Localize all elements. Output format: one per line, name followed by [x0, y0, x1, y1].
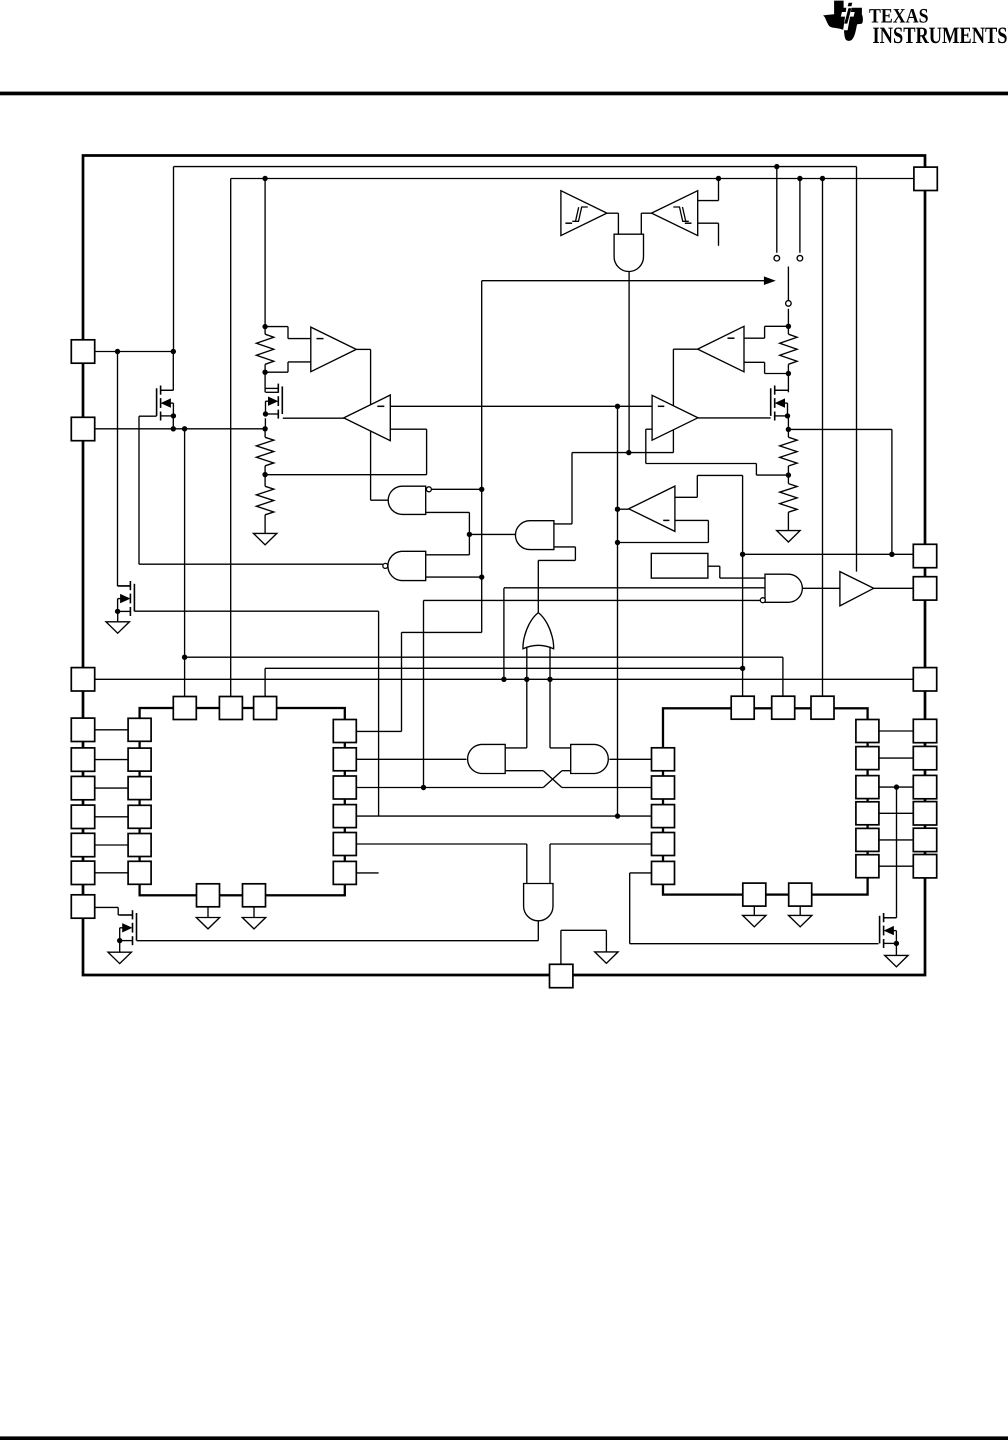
pin — [913, 802, 936, 825]
wire — [505, 770, 543, 772]
junction — [467, 532, 472, 537]
junction — [786, 472, 791, 477]
nmos Q3 drain lead — [775, 389, 788, 391]
pad right-block west — [652, 776, 675, 799]
OR gate — [523, 613, 554, 649]
pad left-block south — [197, 884, 220, 907]
junction — [615, 813, 620, 818]
nmos Q3 source lead — [775, 415, 788, 417]
nmos Q2 channel — [277, 384, 279, 393]
wire OR in1 / J in1 — [526, 647, 528, 748]
pad left-block east — [333, 833, 356, 856]
wire — [802, 587, 840, 589]
junction — [421, 785, 426, 790]
wire — [822, 179, 824, 697]
wire comp D out to Q3 gate — [698, 417, 771, 419]
pad right-block east — [856, 828, 879, 851]
wire comp A out — [356, 348, 370, 350]
wire — [265, 326, 288, 328]
wire — [230, 179, 232, 697]
pin — [71, 668, 94, 691]
pin — [913, 719, 936, 742]
pin — [913, 828, 936, 851]
wire feedback — [788, 428, 892, 430]
NAND gate H — [765, 574, 802, 602]
wire pad to pin — [879, 730, 914, 732]
pad right-block south — [743, 883, 766, 906]
ground — [196, 918, 219, 929]
TI logo bug — [823, 1, 863, 41]
ground — [743, 915, 766, 926]
pad right-block east — [856, 855, 879, 878]
wire — [537, 921, 539, 941]
pad left-block west — [128, 861, 151, 884]
pad left-block east — [333, 861, 356, 884]
wire — [265, 667, 743, 669]
wire VDD bus — [174, 166, 857, 168]
pad right-block west — [652, 833, 675, 856]
junction — [524, 677, 529, 682]
wire — [117, 352, 119, 587]
wire Q4 gate — [378, 611, 380, 816]
AND gate J — [468, 744, 506, 773]
wire — [264, 179, 266, 327]
pin VSS — [550, 964, 573, 987]
AND gate I — [524, 884, 553, 921]
nmos Q4 gate bar — [133, 584, 135, 612]
nmos Q5 arrow — [123, 924, 132, 932]
AND gate G2 — [388, 551, 426, 580]
pad left-block west — [128, 834, 151, 857]
resistor R1 — [256, 334, 273, 364]
wire cross — [543, 771, 562, 788]
pad left-block north — [173, 697, 196, 720]
junction — [786, 427, 791, 432]
pad left-block east — [333, 776, 356, 799]
wire — [630, 872, 652, 874]
pad left-block east — [333, 805, 356, 828]
wire — [698, 222, 719, 224]
wire — [264, 372, 266, 392]
wire pin to pad — [95, 787, 128, 789]
wire J out — [356, 758, 466, 760]
pad left-block north — [254, 697, 277, 720]
wire Q6 gate — [630, 943, 879, 945]
nmos Q6 drain lead — [884, 917, 897, 919]
wire — [562, 770, 571, 772]
wire — [95, 906, 119, 908]
nmos Q5 channel — [132, 910, 134, 919]
wire — [265, 371, 288, 373]
wire — [253, 907, 255, 918]
junction — [115, 349, 120, 354]
ground — [885, 955, 908, 966]
wire to G2 bubble — [139, 563, 383, 565]
junction — [479, 574, 484, 579]
buffer — [840, 572, 874, 606]
comparator A — [311, 327, 357, 372]
junction — [501, 677, 506, 682]
pin — [71, 833, 94, 856]
wire — [95, 678, 914, 680]
junction — [615, 540, 620, 545]
pin EN — [71, 340, 94, 363]
pad left-block south — [243, 884, 266, 907]
wire from pin EN — [95, 351, 174, 353]
junction — [262, 472, 267, 477]
junction — [182, 426, 187, 431]
junction — [615, 404, 620, 409]
resistor R4 — [780, 334, 797, 364]
pad right-block south — [789, 883, 812, 906]
wire — [856, 167, 858, 572]
junction — [171, 426, 176, 431]
pad left-block west — [128, 718, 151, 741]
wire — [431, 488, 481, 490]
comparator B — [344, 395, 391, 441]
pad left-block west — [128, 748, 151, 771]
wire pad to pin — [879, 812, 914, 814]
wire comp C out — [673, 348, 697, 350]
ground — [253, 533, 276, 544]
ground — [777, 531, 800, 542]
hysteresis symbol — [673, 207, 689, 221]
junction — [262, 176, 267, 181]
nmos Q2 drain lead — [266, 387, 279, 389]
wire bus to pin — [231, 178, 914, 180]
junction — [626, 450, 631, 455]
nmos Q5 source junction — [117, 938, 122, 943]
wire — [572, 452, 673, 454]
pin — [71, 895, 94, 918]
wire — [646, 463, 757, 465]
wire — [185, 656, 783, 658]
wire — [799, 906, 801, 915]
wire — [356, 787, 543, 789]
comparator D — [652, 395, 698, 440]
arrowhead — [764, 276, 776, 285]
pad left-block east — [333, 748, 356, 771]
pin HO — [913, 577, 936, 600]
comparator E — [629, 486, 675, 531]
wire comp B out to Q2 gate — [283, 417, 346, 419]
wire — [402, 631, 482, 633]
wire — [356, 730, 401, 732]
junction — [786, 324, 791, 329]
wire pin to pad — [95, 872, 128, 874]
wire — [550, 843, 652, 845]
nmos Q3 source junction — [785, 413, 790, 418]
ground — [242, 918, 265, 929]
pad right-block north — [811, 696, 834, 719]
logic block right — [663, 708, 868, 894]
ground — [789, 915, 812, 926]
wire — [562, 787, 652, 789]
chip boundary — [83, 156, 925, 976]
wire — [426, 576, 482, 578]
wire comp A out to G1 — [371, 499, 389, 501]
wire — [896, 787, 898, 918]
wire — [424, 599, 761, 601]
pad right-block west — [652, 748, 675, 771]
wire — [765, 373, 789, 375]
pin — [71, 776, 94, 799]
pin VDD — [914, 167, 937, 190]
logic block left — [140, 708, 345, 895]
pad right-block west — [652, 861, 675, 884]
wire pin to pad — [95, 729, 128, 731]
pin — [71, 805, 94, 828]
wire VDD to pin — [743, 553, 914, 555]
pin — [71, 748, 94, 771]
pin — [913, 855, 936, 878]
nmos Q6 source lead — [884, 942, 897, 944]
wire — [505, 747, 527, 749]
wire comp E out — [618, 508, 629, 510]
pin — [913, 668, 936, 691]
pad right-block east — [856, 776, 879, 799]
footer rule — [0, 1436, 1008, 1440]
AND gate G1 — [388, 486, 426, 514]
wire pin to pad — [95, 844, 128, 846]
wire to switch contact — [799, 179, 801, 253]
wire to switch contact — [776, 167, 778, 253]
nmos Q4 source junction — [115, 609, 120, 614]
junction — [716, 176, 721, 181]
wire to F — [469, 533, 516, 535]
nmos Q4 drain lead — [118, 585, 131, 587]
wire — [504, 587, 765, 589]
wire comp E in+ — [675, 496, 697, 498]
junction — [171, 349, 176, 354]
pad right-block east — [856, 747, 879, 770]
wire feedback divider — [265, 474, 427, 476]
junction — [774, 164, 779, 169]
wire pad to pin — [879, 757, 914, 759]
wire — [718, 179, 720, 201]
junction — [740, 552, 745, 557]
nmos Q6 channel — [883, 913, 885, 922]
delay block — [651, 553, 708, 578]
pad right-block east — [856, 720, 879, 743]
nmos Q5 drain lead — [120, 914, 133, 916]
wire comp E in- — [675, 519, 709, 521]
wire — [708, 565, 720, 567]
junction — [547, 677, 552, 682]
wire — [356, 872, 378, 874]
pad left-block north — [219, 697, 242, 720]
nmos Q6 gate bar — [879, 916, 881, 944]
resistor R3 — [256, 486, 273, 515]
wire — [756, 474, 788, 476]
AND gate K — [571, 744, 609, 773]
AND gate G0 — [614, 234, 643, 271]
AND gate F — [515, 521, 553, 550]
junction — [182, 655, 187, 660]
junction — [894, 784, 899, 789]
resistor R6 — [780, 484, 797, 513]
wire bus — [481, 281, 483, 633]
wire — [753, 906, 755, 915]
junction — [262, 370, 267, 375]
nmos Q2 source junction — [263, 411, 268, 416]
nmos Q1 source lead — [161, 415, 174, 417]
junction — [740, 666, 745, 671]
wire — [426, 511, 470, 513]
wire — [426, 554, 470, 556]
wire Q5 gate — [137, 940, 539, 942]
wire — [560, 930, 562, 964]
wire — [607, 212, 619, 214]
wire comp B out1 long — [390, 405, 652, 407]
nmos Q1 gate bar — [156, 388, 158, 416]
pad right-block north — [772, 696, 795, 719]
wire pad to pin — [879, 786, 914, 788]
comparator C — [698, 326, 744, 372]
nmos Q1 source junction — [171, 413, 176, 418]
nmos Q2 gate bar — [281, 386, 283, 414]
switch pole — [787, 267, 789, 301]
wire from pin IN — [95, 428, 265, 430]
wire inter-block — [356, 815, 651, 817]
nmos Q3 gate bar — [770, 388, 772, 416]
wire K out — [609, 758, 651, 760]
pad right-block west — [652, 805, 675, 828]
pad right-block north — [731, 696, 754, 719]
wire pad to pin — [879, 865, 914, 867]
wire — [172, 352, 174, 391]
junction — [615, 507, 620, 512]
wire bus — [617, 406, 619, 816]
pad left-block west — [128, 805, 151, 828]
wire pad to pin — [879, 839, 914, 841]
nmos Q4 arrow — [121, 595, 130, 603]
pin — [71, 718, 94, 741]
pin — [913, 775, 936, 798]
junction — [262, 324, 267, 329]
wire bus — [184, 429, 186, 697]
pad left-block west — [128, 777, 151, 800]
pin — [913, 746, 936, 769]
schmitt trigger right — [652, 191, 698, 236]
wire — [356, 843, 526, 845]
pad right-block east — [856, 802, 879, 825]
wire bus — [742, 475, 744, 696]
wire — [554, 546, 576, 548]
nmos Q2 arrow — [269, 397, 278, 405]
junction — [797, 176, 802, 181]
wire — [787, 374, 789, 393]
svg-text:INSTRUMENTS: INSTRUMENTS — [873, 23, 1008, 49]
wire — [173, 167, 175, 352]
wire to pin HO — [874, 587, 914, 589]
pin IN — [71, 417, 94, 440]
ground — [106, 622, 129, 633]
nmos Q1 channel — [160, 386, 162, 395]
wire Q1 gate — [139, 415, 157, 417]
wire — [628, 272, 630, 453]
wire — [207, 907, 209, 918]
wire pin to pad — [95, 816, 128, 818]
junction — [786, 371, 791, 376]
pad left-block east — [333, 720, 356, 743]
junction — [262, 426, 267, 431]
nmos Q5 gate bar — [136, 913, 138, 941]
junction — [820, 176, 825, 181]
header rule — [0, 92, 1008, 96]
ground — [595, 952, 618, 963]
nmos Q4 source lead — [118, 610, 131, 612]
junction — [889, 552, 894, 557]
wire comp B in2 — [390, 428, 426, 430]
wire select control — [482, 280, 765, 282]
pin — [913, 544, 936, 567]
wire — [765, 325, 789, 327]
pin — [71, 861, 94, 884]
wire — [550, 747, 571, 749]
resistor R2 — [256, 437, 273, 466]
schmitt trigger left — [561, 191, 607, 236]
resistor R5 — [780, 437, 797, 466]
wire OR in2 / K in1 — [549, 647, 551, 748]
wire cross — [543, 771, 562, 788]
junction — [479, 487, 484, 492]
nmos Q2 source lead — [266, 413, 279, 415]
nmos Q1 arrow — [162, 399, 171, 407]
nmos Q6 arrow — [885, 927, 894, 935]
nmos Q6 source junction — [894, 941, 899, 946]
nmos Q3 arrow — [776, 399, 785, 407]
wire — [641, 212, 651, 214]
nmos Q4 channel — [129, 581, 131, 590]
nmos Q1 drain lead — [161, 389, 174, 391]
nmos Q3 channel — [774, 386, 776, 395]
wire pin to pad — [95, 759, 128, 761]
hysteresis symbol — [572, 207, 588, 221]
ground — [108, 952, 131, 963]
wire — [554, 523, 572, 525]
nmos Q5 source lead — [120, 940, 133, 942]
